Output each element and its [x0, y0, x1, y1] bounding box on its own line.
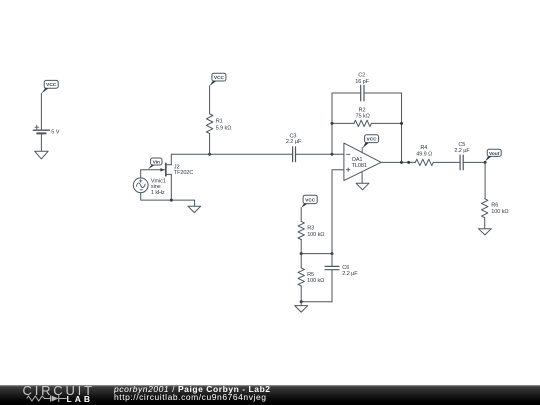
node VCC flag (op-amp V+)	[362, 135, 378, 153]
resistor R1 5.9 kΩ	[206, 114, 231, 134]
junction inverting input node	[331, 153, 334, 156]
wire	[40, 93, 42, 130]
svg-text:5.9 kΩ: 5.9 kΩ	[216, 126, 232, 132]
junction (JFET source to bottom net)	[170, 199, 173, 202]
logo CIRCUIT	[23, 384, 95, 397]
op-amp OA1 TL081	[344, 143, 381, 181]
node VCC flag (R3 branch)	[301, 195, 317, 208]
wire R5 bottom to ground net	[301, 286, 332, 302]
capacitor C6 2.2 µF	[325, 265, 358, 277]
battery V1 5 V	[33, 125, 59, 135]
node VCC flag (battery branch)	[42, 80, 59, 93]
svg-text:2.2 µF: 2.2 µF	[286, 139, 302, 145]
svg-text:Vout: Vout	[489, 151, 500, 157]
svg-text:2.2 µF: 2.2 µF	[342, 271, 358, 277]
wire source down and bottom net	[141, 174, 195, 206]
wire Vout down to R6	[484, 162, 486, 198]
junction bias node left	[300, 252, 303, 255]
svg-text:16 pF: 16 pF	[355, 79, 369, 85]
resistor R6 100 kΩ	[482, 199, 509, 218]
resistor R4 49.9 Ω	[415, 145, 433, 165]
junction (R1 to rail)	[208, 153, 211, 156]
svg-text:100 kΩ: 100 kΩ	[491, 209, 508, 215]
wire R5 top	[300, 254, 302, 268]
capacitor C2 16 pF	[355, 73, 369, 101]
junction Vout node	[484, 161, 487, 164]
ground (op-amp V-)	[356, 183, 369, 190]
svg-text:VCC: VCC	[305, 197, 316, 203]
wire ground stub	[300, 302, 302, 306]
logo doodle	[22, 394, 92, 404]
svg-text:TL081: TL081	[352, 163, 367, 169]
wire	[209, 134, 211, 155]
wire C3 to inverting node	[296, 153, 333, 155]
svg-text:100 kΩ: 100 kΩ	[307, 232, 324, 238]
ground (battery)	[35, 151, 48, 159]
resistor R2 75 kΩ	[354, 108, 371, 127]
svg-text:R2: R2	[359, 108, 366, 114]
wire drain up to rail	[170, 154, 172, 164]
wire feedback top right	[364, 93, 402, 162]
junction output/feedback	[400, 161, 403, 164]
junction ground net	[300, 300, 303, 303]
svg-text:TF202C: TF202C	[174, 170, 194, 176]
svg-text:Vin: Vin	[153, 159, 160, 165]
footer text line 2	[114, 393, 267, 402]
wire	[209, 86, 211, 114]
wire	[40, 134, 42, 151]
wire source top to gate	[141, 170, 161, 178]
svg-text:OA1: OA1	[352, 157, 363, 163]
svg-text:R1: R1	[216, 118, 223, 124]
wire C6 bottom	[331, 270, 333, 302]
svg-text:5 V: 5 V	[51, 129, 59, 135]
ground (bias divider)	[295, 306, 308, 313]
capacitor C5 2.2 µF	[454, 142, 470, 170]
wire bias node horizontal	[301, 253, 332, 255]
svg-text:R3: R3	[307, 225, 314, 231]
wire R6 to ground	[484, 218, 486, 229]
ground (source net)	[188, 206, 201, 212]
footer text line 1	[114, 385, 271, 394]
node Vin flag	[148, 158, 162, 169]
junction output wire	[407, 161, 410, 164]
svg-text:VCC: VCC	[214, 75, 225, 81]
node VCC flag (R1 branch)	[210, 73, 226, 86]
wire op-amp V- stub	[361, 173, 363, 184]
wire non-inverting input	[332, 170, 344, 254]
wire	[300, 208, 302, 222]
svg-text:1 kHz: 1 kHz	[151, 190, 165, 196]
wire R2 row	[332, 122, 402, 124]
svg-text:49.9 Ω: 49.9 Ω	[416, 151, 432, 157]
svg-text:R6: R6	[491, 203, 498, 209]
wire inverting input	[332, 153, 344, 155]
wire R3 bottom to node	[300, 240, 302, 254]
svg-text:2.2 µF: 2.2 µF	[454, 148, 470, 154]
svg-text:100 kΩ: 100 kΩ	[307, 278, 324, 284]
wire rail drain to C3	[171, 153, 292, 155]
svg-text:C6: C6	[342, 265, 349, 271]
svg-text:VCC: VCC	[367, 137, 378, 143]
resistor R5 100 kΩ	[298, 268, 324, 286]
capacitor C3 2.2 µF	[286, 133, 302, 161]
wire R4 to C5	[433, 161, 460, 163]
transistor J2 TF202C (n-JFET)	[160, 163, 193, 176]
junction R2 right	[400, 122, 403, 125]
node Vout flag	[485, 149, 501, 161]
resistor R3 100 kΩ	[298, 221, 324, 239]
wire feedback left vertical	[332, 93, 361, 154]
wire C6 top	[331, 254, 333, 267]
wire C5 to Vout node	[463, 161, 485, 163]
svg-text:R4: R4	[420, 145, 427, 151]
svg-text:VCC: VCC	[46, 82, 57, 88]
svg-text:C2: C2	[358, 73, 365, 79]
voltage source Vmic1 sine 1 kHz	[133, 178, 166, 196]
footer bar	[0, 385, 540, 405]
junction R2 left	[331, 122, 334, 125]
junction bias node right	[331, 252, 334, 255]
svg-text:75 kΩ: 75 kΩ	[356, 114, 370, 120]
ground (R6)	[479, 229, 492, 235]
wire output row	[381, 161, 415, 163]
